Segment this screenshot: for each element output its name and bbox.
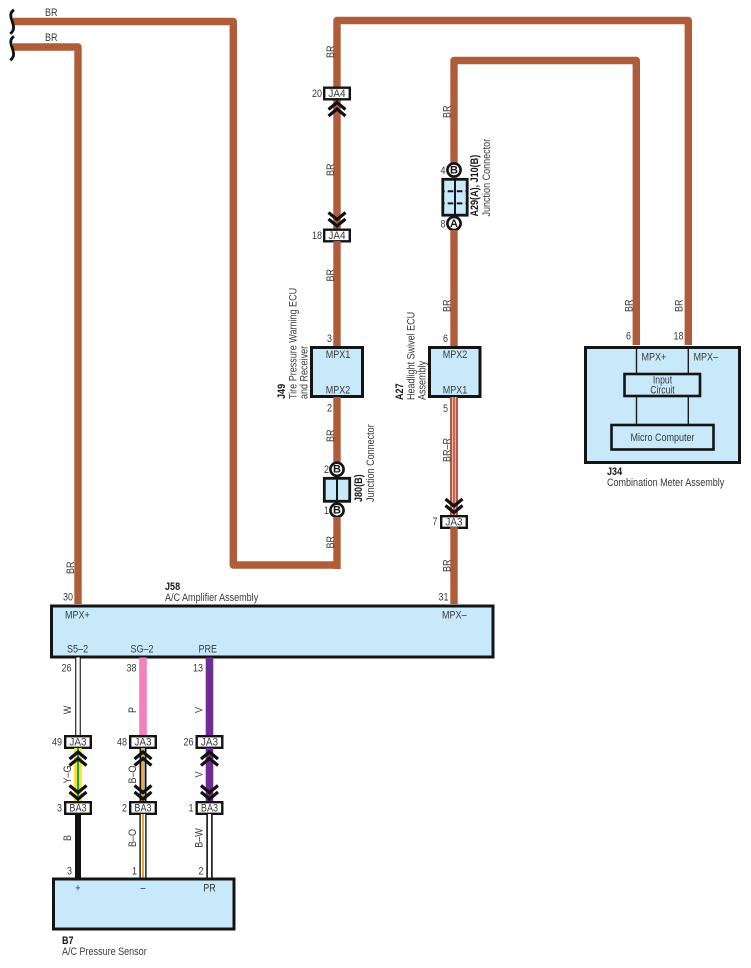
svg-text:48: 48	[117, 736, 127, 748]
svg-text:2: 2	[122, 802, 127, 814]
svg-text:PRE: PRE	[199, 644, 218, 656]
svg-text:BR: BR	[442, 559, 454, 572]
svg-text:MPX+: MPX+	[65, 610, 90, 622]
svg-text:B–W: B–W	[194, 828, 206, 848]
svg-text:2: 2	[199, 866, 204, 878]
svg-text:Assembly: Assembly	[417, 360, 429, 400]
svg-text:JA3: JA3	[445, 517, 462, 529]
wire BR net B: from 20 JA4 up, top horizontal y20, down at x688 to J34 pin 18	[337, 21, 688, 346]
block Input Circuit	[625, 374, 701, 397]
connector 18 JA4	[324, 230, 350, 242]
svg-text:J49: J49	[276, 384, 288, 399]
svg-text:18: 18	[312, 230, 322, 242]
wire B-O between 48 JA3 and 2 BA3	[140, 748, 147, 801]
continuation squiggle wire A	[10, 10, 14, 34]
svg-text:7: 7	[433, 516, 438, 528]
junction connector A29(A),J10(B) body grid	[443, 179, 467, 215]
svg-text:+: +	[75, 883, 80, 895]
svg-text:Micro Computer: Micro Computer	[630, 432, 694, 444]
wire V from J58 PRE to 26 JA3	[206, 658, 214, 737]
svg-text:38: 38	[127, 663, 137, 675]
svg-text:S5–2: S5–2	[67, 644, 88, 656]
svg-text:SG–2: SG–2	[131, 644, 154, 656]
svg-text:JA4: JA4	[328, 88, 345, 100]
wire BR from J80 circle down to bottom horizontal of net A	[333, 517, 340, 569]
connector 3 BA3	[65, 802, 91, 814]
connector 26 JA3	[197, 736, 223, 748]
svg-text:BR: BR	[325, 269, 337, 282]
svg-text:and Receiver: and Receiver	[299, 346, 311, 399]
arrow down above 7 JA3	[446, 499, 463, 513]
svg-text:BA3: BA3	[134, 803, 151, 815]
svg-text:31: 31	[439, 592, 449, 604]
wire Y-G between 49 JA3 and 3 BA3	[74, 748, 82, 801]
svg-text:6: 6	[443, 333, 448, 345]
svg-text:30: 30	[63, 592, 73, 604]
svg-text:A/C Amplifier Assembly: A/C Amplifier Assembly	[165, 592, 259, 604]
svg-text:W: W	[62, 705, 74, 714]
svg-text:JA4: JA4	[328, 230, 345, 242]
wire BR net 2: left horizontal y45, down at x78 to J58 pin 30	[13, 47, 78, 604]
arrow up below 49 JA3	[70, 752, 87, 766]
svg-text:JA3: JA3	[69, 737, 86, 749]
wire BR net C: from junction circle B up at x453.5, horizontal y59, down at x636.5 to J34 pin 6	[454, 61, 636, 346]
svg-text:8: 8	[441, 218, 446, 230]
svg-text:BR: BR	[325, 45, 337, 58]
svg-text:3: 3	[57, 802, 62, 814]
wire B from 3 BA3 to B7 plus	[75, 814, 81, 879]
wire P from J58 SG-2 to 48 JA3	[139, 658, 147, 737]
svg-text:B: B	[333, 464, 341, 476]
wire B-W from 1 BA3 to B7 PR	[206, 814, 212, 879]
svg-text:MPX2: MPX2	[326, 385, 351, 397]
svg-text:P: P	[127, 707, 139, 713]
svg-text:B: B	[62, 835, 74, 841]
svg-text:BR: BR	[325, 536, 337, 549]
svg-text:A: A	[450, 218, 458, 230]
junction J80(B) top terminal circle B	[330, 463, 343, 476]
svg-text:49: 49	[52, 736, 62, 748]
svg-text:A29(A), J10(B): A29(A), J10(B)	[469, 155, 481, 217]
svg-text:1: 1	[189, 802, 194, 814]
svg-text:BR: BR	[45, 7, 58, 19]
svg-text:Junction Connector: Junction Connector	[365, 424, 377, 502]
ECU J58 A/C Amplifier Assembly	[52, 606, 494, 657]
svg-text:3: 3	[327, 333, 332, 345]
wire internal MPX+ to Input Circuit	[636, 349, 638, 374]
svg-text:J80(B): J80(B)	[353, 474, 365, 502]
wire BR-R from A27 MPX1 down to 7 JA3	[450, 397, 458, 515]
svg-text:B: B	[450, 164, 458, 176]
svg-text:BR: BR	[45, 32, 58, 44]
connector 2 BA3	[130, 802, 156, 814]
svg-text:MPX+: MPX+	[642, 352, 667, 364]
wire internal MPX- to Input Circuit	[687, 349, 689, 374]
arrow down above 1 BA3	[201, 786, 218, 800]
svg-text:Combination Meter Assembly: Combination Meter Assembly	[607, 477, 725, 489]
connector 7 JA3	[441, 516, 467, 528]
svg-text:MPX–: MPX–	[694, 352, 719, 364]
svg-text:A/C Pressure Sensor: A/C Pressure Sensor	[62, 946, 147, 958]
svg-text:MPX1: MPX1	[443, 385, 468, 397]
sensor B7 A/C Pressure Sensor	[54, 879, 235, 929]
svg-text:2: 2	[324, 464, 329, 476]
ECU J49 Tire Pressure Warning ECU and Receiver	[312, 348, 363, 397]
arrow up below 26 JA3	[201, 752, 218, 766]
svg-text:BR–R: BR–R	[442, 438, 454, 462]
svg-text:MPX1: MPX1	[326, 349, 351, 361]
meter J34 Combination Meter Assembly	[586, 348, 740, 463]
wire V between 26 JA3 and 1 BA3	[206, 748, 214, 801]
svg-text:2: 2	[327, 403, 332, 415]
wire B-O from 2 BA3 to B7 minus	[139, 814, 146, 879]
svg-text:B: B	[333, 505, 341, 517]
svg-text:A27: A27	[394, 383, 406, 400]
svg-text:Y–G: Y–G	[62, 766, 74, 784]
wire BR from circle A down to A27 MPX2	[450, 230, 457, 346]
connector 49 JA3	[65, 736, 91, 748]
wire internal Input Circuit to Micro Computer left	[636, 396, 638, 425]
arrow down above 2 BA3	[135, 786, 152, 800]
svg-text:V: V	[194, 706, 206, 713]
wire BR from 7 JA3 to J58 pin 31	[450, 527, 457, 604]
svg-text:BR: BR	[65, 561, 77, 574]
svg-text:BR: BR	[674, 299, 686, 312]
svg-text:BA3: BA3	[69, 803, 86, 815]
junction A29/J10 top terminal circle B	[447, 163, 460, 176]
svg-text:JA3: JA3	[134, 737, 151, 749]
wire W from J58 S5-2 to 49 JA3	[75, 658, 81, 737]
svg-text:1: 1	[132, 866, 137, 878]
svg-text:5: 5	[443, 403, 448, 415]
arrow up below 20 JA4	[329, 103, 346, 117]
svg-text:Circuit: Circuit	[650, 385, 674, 397]
svg-text:26: 26	[184, 736, 194, 748]
svg-text:13: 13	[193, 663, 203, 675]
ECU A27 Headlight Swivel ECU Assembly	[430, 348, 481, 397]
svg-text:BR: BR	[325, 429, 337, 442]
svg-text:Junction Connector: Junction Connector	[481, 139, 493, 217]
svg-text:26: 26	[62, 663, 72, 675]
wire BR net A: top-left horizontal, down at x233, bottom horizontal to x336	[13, 22, 337, 566]
continuation squiggle wire 2	[10, 36, 14, 60]
svg-text:B–O: B–O	[127, 765, 139, 783]
svg-text:JA3: JA3	[201, 737, 218, 749]
arrow down above 18 JA4	[329, 213, 346, 227]
svg-text:1: 1	[324, 505, 329, 517]
wire BR from J49 MPX2 down to J80 circle	[333, 397, 340, 464]
svg-text:MPX–: MPX–	[442, 610, 467, 622]
svg-text:V: V	[194, 771, 206, 778]
svg-text:3: 3	[67, 866, 72, 878]
junction A29/J10 bottom terminal circle A	[447, 217, 460, 230]
svg-text:–: –	[141, 883, 147, 895]
svg-text:BA3: BA3	[201, 803, 218, 815]
wire BR from 18 JA4 down to J49 MPX1	[333, 241, 340, 346]
block Micro Computer	[612, 425, 714, 450]
svg-text:MPX2: MPX2	[443, 349, 468, 361]
connector 1 BA3	[197, 802, 223, 814]
connector 20 JA4	[324, 88, 350, 100]
arrow down above 3 BA3	[70, 786, 87, 800]
arrow up below 48 JA3	[135, 752, 152, 766]
svg-text:B–O: B–O	[127, 829, 139, 847]
junction J80(B) bottom terminal circle B	[330, 504, 343, 517]
svg-text:PR: PR	[203, 883, 216, 895]
svg-text:18: 18	[674, 331, 684, 343]
wire internal Input Circuit to Micro Computer right	[687, 396, 689, 425]
wire BR between 20 JA4 and 18 JA4	[333, 99, 340, 229]
svg-text:4: 4	[441, 165, 446, 177]
svg-text:BR: BR	[325, 163, 337, 176]
connector 48 JA3	[130, 736, 156, 748]
svg-text:6: 6	[626, 331, 631, 343]
svg-text:20: 20	[312, 88, 322, 100]
svg-text:BR: BR	[624, 299, 636, 312]
junction connector J80(B) body	[324, 478, 349, 502]
svg-text:BR: BR	[442, 105, 454, 118]
svg-text:BR: BR	[442, 299, 454, 312]
